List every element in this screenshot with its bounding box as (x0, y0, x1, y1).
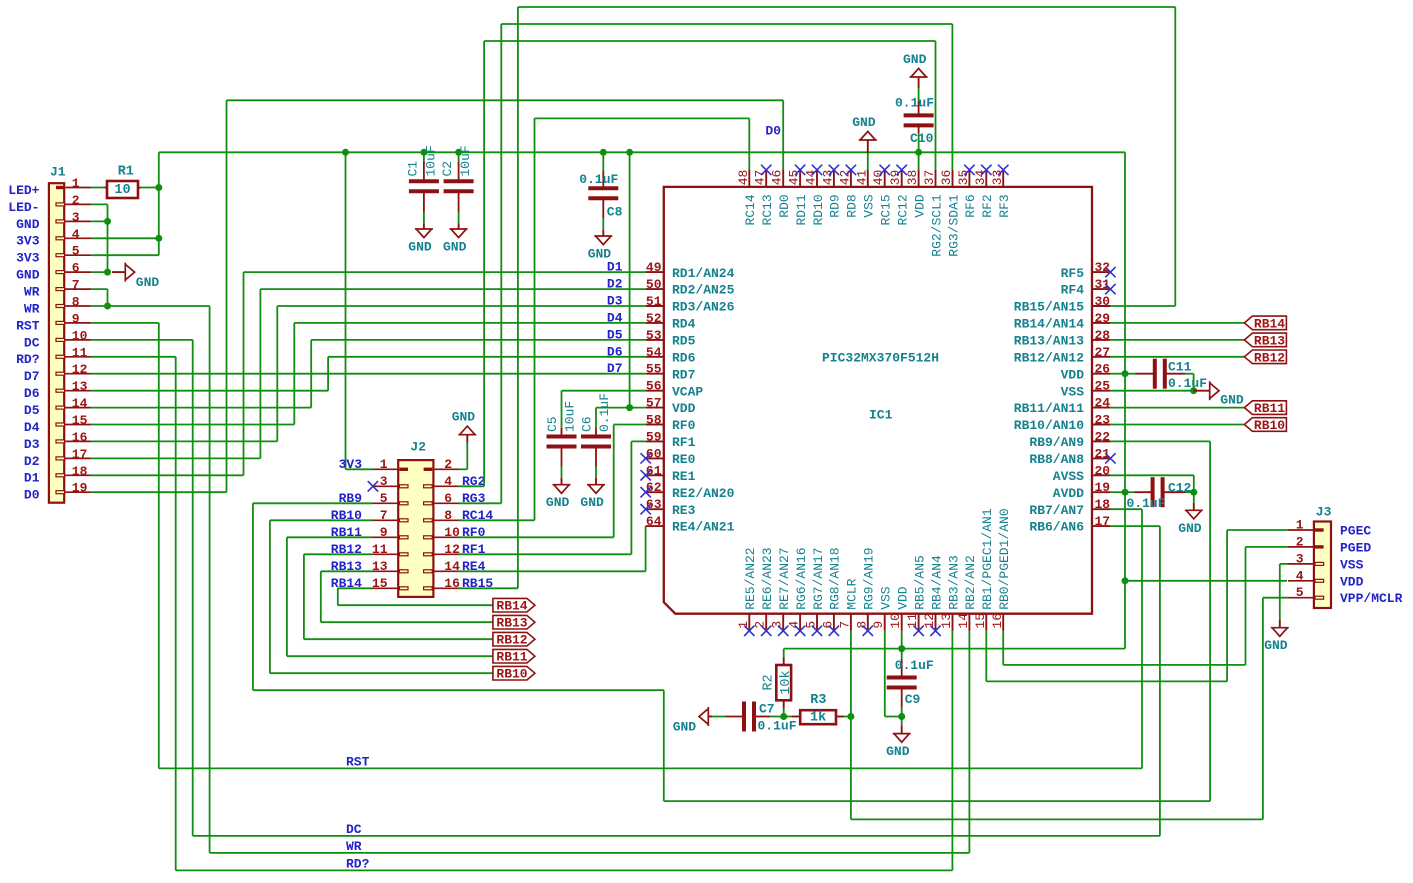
svg-text:RE5/AN22: RE5/AN22 (743, 547, 758, 609)
svg-text:61: 61 (646, 463, 662, 478)
svg-text:18: 18 (1095, 497, 1111, 512)
svg-text:26: 26 (1095, 362, 1111, 377)
svg-text:RB2/AN2: RB2/AN2 (963, 555, 978, 610)
IC1 pin 54 RD6 (646, 345, 696, 366)
svg-text:RG2/SCL1: RG2/SCL1 (929, 194, 944, 257)
wire VSS J3.3 (1280, 564, 1288, 620)
svg-text:16: 16 (444, 576, 460, 591)
resistor R3 (800, 693, 836, 726)
IC1 pin 42 RD8 (837, 165, 859, 218)
svg-text:10k: 10k (779, 670, 794, 694)
wire R2 bottom green (783, 709, 785, 717)
svg-text:10uF: 10uF (458, 145, 473, 176)
IC1 pin 46 RD0 (770, 170, 792, 218)
J2 pin 1 (339, 457, 408, 472)
IC1 pin 20 AVSS (1053, 463, 1111, 484)
svg-text:57: 57 (646, 396, 662, 411)
J1 pin 11 (16, 345, 91, 367)
wire RE4 (459, 526, 646, 571)
junction MCLR/R3 (847, 713, 854, 720)
ground C10 (903, 52, 928, 77)
svg-text:C7: C7 (759, 702, 775, 717)
J1 pin 5 (16, 244, 91, 266)
svg-text:63: 63 (646, 497, 662, 512)
wire D5 (91, 340, 646, 408)
IC1 pin 28 RB13/AN13 (1014, 328, 1111, 349)
C1 gnd lead (423, 224, 425, 230)
svg-text:AVSS: AVSS (1053, 469, 1084, 484)
svg-text:C11: C11 (1168, 359, 1192, 374)
svg-text:17: 17 (72, 447, 88, 462)
svg-text:0.1uF: 0.1uF (1127, 496, 1166, 511)
wire C10 top green (918, 88, 920, 101)
svg-text:D4: D4 (607, 310, 623, 325)
svg-text:D4: D4 (24, 420, 40, 435)
wire RF1 (459, 441, 646, 554)
svg-text:RF5: RF5 (1061, 266, 1085, 281)
R2 leads (783, 658, 785, 709)
svg-text:14: 14 (956, 613, 971, 629)
no-connect J2 pin 3 (368, 481, 378, 491)
IC1 pin 61 RE1 (641, 463, 696, 484)
wire C12 gnd green (1193, 492, 1195, 503)
svg-text:RD0: RD0 (777, 194, 792, 217)
wire IC20 AVSS wire (1110, 475, 1193, 492)
IC1 pin 4 RG6/AN16 (787, 547, 809, 636)
svg-text:RB5/AN5: RB5/AN5 (912, 555, 927, 610)
svg-text:RG7/AN17: RG7/AN17 (811, 547, 826, 609)
svg-text:58: 58 (646, 413, 662, 428)
net flag RB12 (1244, 350, 1286, 365)
svg-text:3: 3 (72, 210, 80, 225)
IC1 pin 30 RB15/AN15 (1014, 294, 1111, 315)
svg-text:WR: WR (24, 285, 40, 300)
svg-text:14: 14 (72, 396, 88, 411)
svg-text:34: 34 (973, 169, 988, 185)
svg-text:0.1uF: 0.1uF (597, 393, 612, 432)
junction VDD rail/IC57 branch (626, 149, 633, 156)
IC1 pin 2 RE6/AN23 (753, 547, 775, 636)
svg-text:D0: D0 (765, 124, 781, 139)
ground J2.2 (452, 410, 477, 435)
svg-text:RG8/AN18: RG8/AN18 (828, 547, 843, 609)
net flag RB12 (493, 632, 535, 647)
J2 pin 3 (373, 474, 409, 489)
C2 gnd lead (458, 224, 460, 230)
svg-text:GND: GND (1264, 638, 1288, 653)
IC1 pin 39 RC12 (888, 165, 910, 226)
svg-text:RB12: RB12 (1254, 350, 1285, 365)
svg-text:C9: C9 (905, 692, 921, 707)
svg-text:41: 41 (854, 169, 869, 185)
svg-text:R1: R1 (118, 165, 134, 180)
wire MCLR to VPP (851, 598, 1288, 820)
svg-text:5: 5 (1296, 585, 1304, 600)
svg-text:RB10: RB10 (496, 667, 527, 682)
net flag RB10 (1244, 418, 1286, 433)
wire C10 bottom green (918, 133, 920, 152)
svg-text:GND: GND (673, 720, 697, 735)
svg-text:RST: RST (16, 318, 40, 333)
C6 gnd lead (595, 478, 597, 485)
wire D6 (91, 357, 646, 391)
svg-text:1: 1 (736, 621, 751, 629)
svg-text:4: 4 (72, 227, 80, 242)
IC1 pin 51 RD3/AN26 (646, 294, 735, 315)
junction WR J1.8 (104, 303, 111, 310)
svg-text:D6: D6 (24, 386, 40, 401)
J3 pin 3 (1288, 551, 1364, 572)
svg-text:D7: D7 (607, 361, 623, 376)
svg-text:15: 15 (973, 613, 988, 629)
C5 gnd lead (561, 478, 563, 485)
svg-text:10: 10 (114, 183, 130, 198)
svg-text:VSS: VSS (1061, 384, 1085, 399)
J2 pin 5 (339, 491, 408, 506)
svg-text:RB9/AN9: RB9/AN9 (1029, 435, 1084, 450)
svg-text:60: 60 (646, 446, 662, 461)
capacitor C6 (581, 428, 611, 467)
IC1 pin 17 RB6/AN6 (1029, 514, 1110, 535)
ground C5 (546, 485, 571, 511)
wire VDD rail (159, 151, 1125, 153)
svg-text:VDD: VDD (672, 401, 696, 416)
svg-text:13: 13 (372, 559, 388, 574)
svg-text:RF1: RF1 (672, 435, 696, 450)
IC1 pin 29 RB14/AN14 (1014, 311, 1111, 332)
IC1 pin 16 RB0/PGED1/AN0 (990, 508, 1012, 630)
junction R2/R3/C7 (780, 713, 787, 720)
ground C9 (886, 734, 911, 760)
wire RB9 run (253, 441, 1210, 801)
svg-text:C5: C5 (545, 416, 560, 432)
ground at IC pin41 (852, 115, 877, 140)
svg-text:1k: 1k (810, 711, 826, 726)
wire VCAP IC56 to C5 (562, 391, 646, 428)
svg-text:0.1uF: 0.1uF (895, 658, 934, 673)
svg-text:0.1uF: 0.1uF (579, 172, 618, 187)
svg-text:D1: D1 (607, 260, 623, 275)
svg-text:RB14/AN14: RB14/AN14 (1014, 317, 1084, 332)
svg-text:DC: DC (346, 822, 362, 837)
svg-text:RF2: RF2 (980, 194, 995, 217)
svg-text:3V3: 3V3 (16, 234, 40, 249)
ground C8 (588, 236, 613, 262)
IC1 pin 10 VDD (888, 586, 910, 631)
J2 pin 7 (331, 508, 408, 523)
svg-text:RD?: RD? (16, 352, 40, 367)
svg-text:J2: J2 (410, 440, 426, 455)
svg-text:R3: R3 (810, 693, 826, 708)
svg-text:RD1/AN24: RD1/AN24 (672, 266, 735, 281)
svg-text:21: 21 (1095, 446, 1111, 461)
svg-text:R2: R2 (762, 674, 777, 690)
svg-text:WR: WR (24, 301, 40, 316)
IC1 pin 24 RB11/AN11 (1014, 396, 1111, 417)
svg-text:10uF: 10uF (424, 145, 439, 176)
wire C9 top green (901, 649, 903, 659)
junction VDD rail/C2 (455, 149, 462, 156)
IC1 pin 47 RC13 (753, 165, 775, 226)
IC1 pin 48 RC14 (736, 170, 758, 226)
svg-text:5: 5 (72, 244, 80, 259)
IC1 pin 7 MCLR (837, 578, 859, 630)
svg-text:11: 11 (372, 542, 388, 557)
svg-text:4: 4 (787, 621, 802, 629)
svg-text:0.1uF: 0.1uF (758, 719, 797, 734)
ground at IC pin25 (1210, 381, 1244, 407)
svg-text:7: 7 (72, 278, 80, 293)
svg-text:10: 10 (72, 328, 88, 343)
svg-text:VDD: VDD (896, 586, 911, 610)
svg-text:RB11: RB11 (496, 650, 527, 665)
IC1 pin 36 RG3/SDA1 (939, 170, 961, 257)
svg-text:GND: GND (452, 410, 476, 425)
svg-text:10: 10 (444, 525, 460, 540)
svg-text:17: 17 (1095, 514, 1111, 529)
wire C2 top lead (458, 152, 460, 164)
J1 pin 7 (24, 278, 91, 300)
wire 3V3 J1.5 (91, 254, 159, 256)
ground C1 (408, 229, 433, 255)
svg-text:D6: D6 (607, 344, 623, 359)
svg-text:19: 19 (72, 481, 88, 496)
ground C7 (673, 707, 709, 735)
svg-text:RB0/PGED1/AN0: RB0/PGED1/AN0 (997, 508, 1012, 609)
wire RB12 stub wire (1110, 356, 1244, 358)
IC1 pin 26 VDD (1061, 362, 1111, 383)
svg-text:C1: C1 (406, 161, 421, 177)
C7 gnd lead (708, 716, 712, 718)
J2 pin 6 (424, 491, 486, 506)
svg-text:D7: D7 (24, 369, 40, 384)
R3 leads (792, 716, 844, 718)
wire RB15 (459, 7, 1176, 588)
svg-text:GND: GND (16, 268, 40, 283)
wire IC26 stub wire (1110, 373, 1125, 375)
wire GND J1.6 (91, 271, 107, 273)
net flag RB14 (1244, 316, 1286, 331)
svg-text:VDD: VDD (912, 194, 927, 218)
svg-text:11: 11 (905, 613, 920, 629)
svg-text:2: 2 (444, 457, 452, 472)
svg-text:31: 31 (1095, 277, 1111, 292)
wire RB11 to flag (287, 537, 493, 656)
svg-text:3: 3 (1296, 551, 1304, 566)
wire C6 top lead (596, 408, 630, 428)
IC1 pin 15 RB1/PGEC1/AN1 (973, 508, 995, 631)
svg-text:36: 36 (939, 170, 954, 186)
C7 labels (758, 702, 797, 734)
C6 labels (580, 393, 613, 432)
J3 pin 4 (1288, 568, 1364, 589)
net flag RB11 (1244, 401, 1286, 416)
svg-text:46: 46 (770, 170, 785, 186)
wire 3V3 J1.4 (91, 237, 159, 239)
net flag RB11 (493, 649, 535, 664)
svg-text:6: 6 (820, 621, 835, 629)
svg-text:VDD: VDD (1340, 574, 1364, 589)
svg-text:RB4/AN4: RB4/AN4 (929, 555, 944, 610)
wire DC IC17 stub wire (1110, 525, 1160, 527)
svg-text:RB6/AN6: RB6/AN6 (1029, 520, 1084, 535)
wire PGEC (986, 530, 1288, 681)
svg-text:37: 37 (922, 170, 937, 186)
svg-text:0.1uF: 0.1uF (1168, 376, 1207, 391)
J1 pin 15 (24, 413, 91, 435)
svg-text:1: 1 (72, 176, 80, 191)
svg-text:52: 52 (646, 311, 662, 326)
svg-text:D2: D2 (24, 454, 40, 469)
J2 pin 8 (424, 508, 494, 523)
J1 pin 2 (8, 193, 91, 215)
junction VDD/IC26 (1122, 370, 1129, 377)
svg-text:10uF: 10uF (563, 401, 578, 432)
wire RB14 to flag (338, 588, 493, 605)
J2 pin 10 (424, 525, 486, 540)
svg-text:IC1: IC1 (869, 408, 893, 423)
svg-text:10: 10 (888, 613, 903, 629)
IC1 pin 41 VSS (854, 169, 876, 217)
C11 labels (1168, 359, 1207, 391)
wire C6 bottom green (595, 467, 597, 479)
wire RST IC18 stub wire (1110, 508, 1142, 510)
svg-text:RB15/AN15: RB15/AN15 (1014, 300, 1084, 315)
wire C12 right green (1185, 491, 1194, 493)
svg-text:C2: C2 (440, 161, 455, 177)
wire VDD bottom run (784, 648, 1125, 650)
C2 labels (440, 145, 473, 176)
IC1 pin 55 RD7 (646, 362, 696, 383)
wire IC10 VDD down (901, 631, 903, 649)
svg-text:GND: GND (408, 240, 432, 255)
IC1 pin 40 RC15 (871, 165, 893, 226)
wire D2 (91, 289, 646, 458)
IC1 pin 19 AVDD (1053, 480, 1111, 501)
wire C5 bottom green (561, 467, 563, 479)
J3 pin 1 (1288, 518, 1371, 539)
svg-text:62: 62 (646, 480, 662, 495)
J2 gnd lead (466, 435, 468, 443)
svg-text:PGED: PGED (1340, 540, 1371, 555)
svg-text:12: 12 (72, 362, 88, 377)
svg-text:15: 15 (72, 413, 88, 428)
svg-text:3: 3 (380, 474, 388, 489)
svg-text:VDD: VDD (1061, 367, 1085, 382)
J2 pin 4 (424, 474, 486, 489)
capacitor C8 (588, 171, 618, 218)
svg-text:24: 24 (1095, 396, 1111, 411)
J2 pin 16 (424, 576, 494, 591)
IC1 pin 45 RD11 (787, 165, 809, 226)
svg-text:5: 5 (804, 621, 819, 629)
J1 pin 4 (16, 227, 91, 249)
svg-text:16: 16 (72, 430, 88, 445)
svg-text:VPP/MCLR: VPP/MCLR (1340, 591, 1403, 606)
svg-text:D3: D3 (24, 437, 40, 452)
svg-text:RB12: RB12 (496, 633, 527, 648)
ground C2 (443, 229, 468, 255)
wire IC41 VSS up (867, 153, 869, 171)
wire GND J2.2 (459, 443, 468, 470)
capacitor C10 (904, 101, 934, 133)
J2 pin 12 (424, 542, 486, 557)
svg-text:RD3/AN26: RD3/AN26 (672, 300, 735, 315)
wire VDD right vertical (1124, 152, 1126, 648)
svg-text:RD?: RD? (346, 857, 370, 872)
svg-text:J3: J3 (1316, 505, 1332, 520)
svg-text:7: 7 (380, 508, 388, 523)
svg-text:4: 4 (444, 474, 452, 489)
J2 pin 15 (331, 576, 408, 591)
J1 pin 9 (16, 311, 91, 333)
svg-text:11: 11 (72, 345, 88, 360)
IC1 pin 12 RB4/AN4 (922, 555, 944, 636)
IC1 pin 3 RE7/AN27 (770, 547, 792, 636)
svg-text:64: 64 (646, 514, 662, 529)
svg-text:6: 6 (72, 261, 80, 276)
ground at J1.6 (125, 263, 159, 290)
IC1 pin 63 RE3 (641, 497, 696, 518)
C9 labels (895, 658, 934, 707)
wire 3V3 R1-junction (141, 187, 159, 189)
svg-text:23: 23 (1095, 413, 1111, 428)
wire D4 (91, 323, 646, 425)
svg-text:28: 28 (1095, 328, 1111, 343)
IC1 pin 32 RF5 (1061, 260, 1116, 281)
svg-text:RB14: RB14 (496, 599, 527, 614)
svg-text:MCLR: MCLR (845, 578, 860, 609)
svg-text:29: 29 (1095, 311, 1111, 326)
wire D1 (91, 272, 646, 475)
svg-text:19: 19 (1095, 480, 1111, 495)
svg-text:GND: GND (1178, 521, 1202, 536)
svg-text:22: 22 (1095, 429, 1111, 444)
wire C10 bottom to IC.38 (918, 152, 920, 170)
IC1 pin 58 RF0 (646, 413, 696, 434)
IC1 pin 38 VDD (905, 170, 927, 218)
svg-text:VCAP: VCAP (672, 384, 703, 399)
svg-text:RB13/AN13: RB13/AN13 (1014, 334, 1084, 349)
svg-text:RG3/SDA1: RG3/SDA1 (946, 194, 961, 257)
svg-text:C8: C8 (607, 205, 623, 220)
wire RF0 (459, 425, 646, 538)
svg-text:47: 47 (753, 170, 768, 186)
svg-text:2: 2 (72, 193, 80, 208)
IC1 pin 60 RE0 (641, 446, 696, 467)
svg-text:VSS: VSS (1340, 557, 1364, 572)
wire MCLR vertical (850, 631, 852, 717)
svg-text:C6: C6 (580, 416, 595, 432)
svg-text:RE3: RE3 (672, 503, 696, 518)
svg-text:GND: GND (852, 115, 876, 130)
svg-text:RB10: RB10 (1254, 418, 1285, 433)
J1 pin 12 (24, 362, 91, 384)
wire VDD to J3.4 (1125, 580, 1287, 582)
svg-text:3: 3 (770, 621, 785, 629)
resistor R1 (107, 165, 138, 199)
capacitor C12 (1135, 477, 1186, 507)
wire RG3 (459, 24, 953, 503)
svg-text:3V3: 3V3 (339, 457, 363, 472)
IC1 pin 1 RE5/AN22 (736, 547, 758, 636)
svg-text:25: 25 (1095, 379, 1111, 394)
svg-text:D1: D1 (24, 471, 40, 486)
wire D3 (91, 306, 646, 441)
IC1 pin 33 RF3 (990, 165, 1012, 218)
svg-text:39: 39 (888, 170, 903, 186)
svg-text:32: 32 (1095, 260, 1111, 275)
